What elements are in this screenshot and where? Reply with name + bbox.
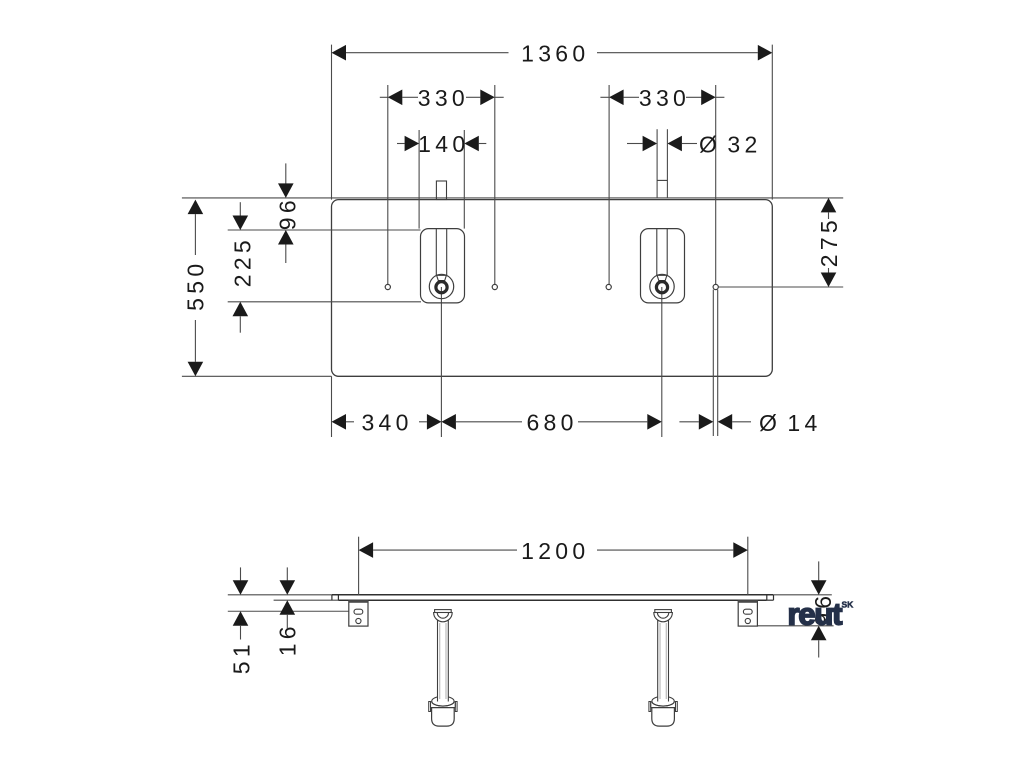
svg-text:Ø 32: Ø 32	[699, 132, 762, 158]
svg-text:SK: SK	[842, 600, 855, 610]
svg-text:16: 16	[275, 622, 301, 656]
svg-text:330: 330	[639, 85, 690, 111]
svg-text:51: 51	[228, 640, 254, 674]
svg-text:330: 330	[418, 85, 469, 111]
svg-text:96: 96	[275, 196, 301, 230]
svg-text:1360: 1360	[521, 40, 589, 66]
svg-text:140: 140	[418, 131, 469, 157]
svg-text:reut: reut	[788, 596, 843, 631]
svg-text:550: 550	[183, 260, 209, 311]
svg-text:1200: 1200	[521, 538, 589, 564]
svg-text:680: 680	[526, 410, 577, 436]
svg-text:340: 340	[361, 410, 412, 436]
svg-text:275: 275	[816, 216, 842, 267]
svg-text:Ø 14: Ø 14	[759, 410, 822, 436]
svg-text:225: 225	[229, 236, 255, 287]
